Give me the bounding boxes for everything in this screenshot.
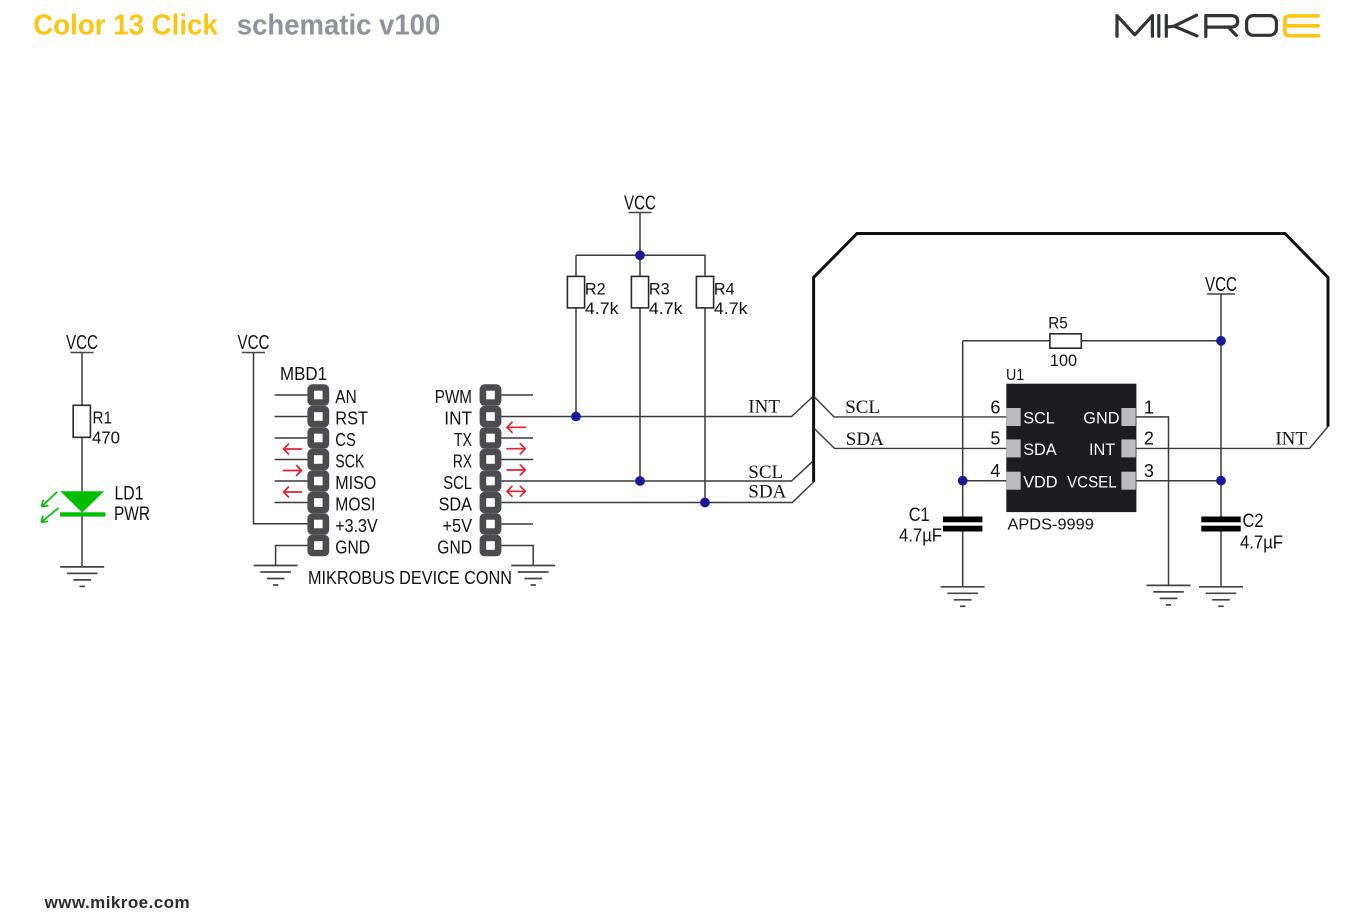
- svg-text:100: 100: [1050, 351, 1077, 370]
- wire C1 to ground: [962, 532, 964, 587]
- svg-text:VCSEL: VCSEL: [1067, 474, 1117, 492]
- wire R4 to SDA net: [704, 308, 706, 503]
- svg-text:SDA: SDA: [748, 482, 786, 503]
- capacitor C2: [1201, 510, 1283, 553]
- svg-text:1: 1: [1144, 397, 1154, 417]
- svg-text:+3.3V: +3.3V: [335, 516, 377, 536]
- arrow RX (right, red): [507, 465, 525, 475]
- power flag VCC (right): [1205, 274, 1237, 296]
- MIKROE logo: [1117, 15, 1276, 36]
- svg-text:4.7k: 4.7k: [649, 299, 683, 318]
- wire MBD1 GND to ground: [276, 546, 308, 566]
- svg-text:PWM: PWM: [435, 387, 472, 407]
- wire VCC to R1: [81, 353, 83, 406]
- svg-text:schematic v100: schematic v100: [237, 10, 440, 42]
- svg-text:U1: U1: [1006, 367, 1024, 384]
- IC U1 APDS-9999: [1006, 367, 1136, 534]
- resistor R2: [567, 276, 619, 318]
- junction R5/VCC: [1216, 336, 1226, 346]
- svg-text:R3: R3: [649, 280, 670, 299]
- svg-text:SCL: SCL: [845, 397, 880, 418]
- wire U1 GND pin 1 to ground: [1136, 417, 1168, 586]
- svg-text:MBD1: MBD1: [280, 364, 327, 384]
- connector MBD1 body: [307, 384, 329, 556]
- MBD1 pin stubs: [275, 395, 308, 503]
- wire DEVICE CONN GND to ground: [501, 546, 533, 566]
- wire VDD net vertical: [962, 341, 964, 517]
- LED LD1 (green): [41, 483, 150, 526]
- wire VDD to U1 pin 4: [963, 480, 1007, 482]
- junction VCSEL/VCC: [1216, 476, 1226, 486]
- svg-text:2: 2: [1144, 429, 1154, 449]
- svg-text:SDA: SDA: [846, 429, 884, 450]
- junction SDA/R4: [700, 498, 710, 508]
- wire INT net (connector to bus): [501, 396, 813, 417]
- junction VDD/C1: [958, 476, 968, 486]
- arrow SCK (right, red): [284, 466, 302, 476]
- arrow INT (left, red): [507, 422, 525, 432]
- svg-text:SCL: SCL: [1023, 409, 1055, 427]
- wire U1 INT pin 2 to bus: [1136, 427, 1328, 449]
- arrow MISO (left, red): [284, 487, 302, 497]
- svg-text:AN: AN: [335, 387, 356, 407]
- resistor R4: [696, 276, 748, 318]
- junction INT/R2: [571, 412, 581, 422]
- logo E (yellow): [1285, 16, 1318, 36]
- svg-text:MIKROBUS DEVICE CONN: MIKROBUS DEVICE CONN: [308, 568, 512, 588]
- svg-text:SDA: SDA: [439, 495, 472, 515]
- svg-text:GND: GND: [1083, 409, 1119, 427]
- svg-text:3: 3: [1144, 461, 1154, 481]
- svg-text:SCL: SCL: [443, 473, 472, 493]
- arrow SDA (bidir, red): [507, 486, 525, 496]
- svg-text:INT: INT: [1275, 429, 1307, 450]
- resistor R3: [631, 276, 683, 318]
- wire VCC to +3.3V pin: [254, 353, 308, 524]
- wire C2 to ground: [1220, 532, 1222, 587]
- svg-text:+5V: +5V: [442, 516, 472, 536]
- svg-text:R4: R4: [714, 280, 735, 299]
- arrow CS (left, red): [284, 444, 302, 454]
- svg-text:INT: INT: [748, 397, 780, 418]
- wire R2 to INT net: [575, 308, 577, 417]
- svg-text:4: 4: [990, 461, 1000, 481]
- svg-text:APDS-9999: APDS-9999: [1008, 517, 1094, 534]
- svg-text:INT: INT: [444, 409, 472, 429]
- MBD1 pin names: [335, 387, 377, 558]
- power flag VCC (pull-up bank): [624, 193, 656, 215]
- svg-text:6: 6: [990, 397, 1000, 417]
- wire pull-up rail: [576, 254, 706, 256]
- svg-text:RX: RX: [453, 452, 472, 472]
- svg-text:C1: C1: [909, 504, 930, 526]
- wire VDD to R5: [963, 340, 1050, 342]
- wire rail to R2: [575, 255, 577, 276]
- capacitor C1: [899, 504, 982, 545]
- ground (C1): [941, 587, 985, 607]
- svg-text:PWR: PWR: [114, 503, 150, 525]
- wire SCL (bus to U1 pin 6): [814, 396, 1007, 417]
- svg-text:LD1: LD1: [115, 483, 144, 505]
- wire R5 to VCC: [1081, 340, 1221, 342]
- svg-text:INT: INT: [1089, 441, 1115, 459]
- power flag VCC (MBD1 branch): [238, 332, 270, 354]
- bus outline (thick): [814, 234, 1328, 482]
- wire VCC down: [639, 213, 641, 256]
- ground (LED branch): [60, 567, 104, 587]
- wire SDA net (connector to bus): [501, 482, 813, 503]
- svg-text:4.7k: 4.7k: [585, 299, 619, 318]
- svg-text:C2: C2: [1243, 510, 1264, 532]
- svg-text:4.7µF: 4.7µF: [1240, 533, 1283, 553]
- ground (C2): [1199, 587, 1243, 607]
- resistor R5: [1048, 314, 1081, 371]
- ground (MBD1): [254, 566, 298, 586]
- svg-text:R1: R1: [93, 408, 113, 428]
- svg-text:VCC: VCC: [624, 193, 656, 215]
- ground (U1 GND): [1147, 585, 1191, 605]
- DEVICE CONN pin names: [435, 387, 472, 558]
- svg-text:4.7k: 4.7k: [714, 299, 748, 318]
- svg-text:Color 13 Click: Color 13 Click: [33, 10, 218, 42]
- svg-text:VCC: VCC: [1205, 274, 1237, 296]
- svg-text:MOSI: MOSI: [335, 495, 375, 515]
- svg-text:4.7µF: 4.7µF: [899, 526, 942, 546]
- wire SDA (bus to U1 pin 5): [815, 429, 1007, 449]
- svg-text:VCC: VCC: [238, 332, 270, 354]
- resistor R1: [73, 405, 120, 447]
- svg-text:GND: GND: [335, 538, 370, 558]
- wire LD1 to ground: [81, 517, 83, 567]
- svg-text:MISO: MISO: [335, 473, 376, 493]
- svg-text:TX: TX: [454, 430, 472, 450]
- svg-text:RST: RST: [335, 409, 368, 429]
- svg-text:SCK: SCK: [335, 452, 364, 472]
- svg-text:CS: CS: [335, 430, 356, 450]
- svg-text:5: 5: [990, 429, 1000, 449]
- wire rail to R3: [639, 255, 641, 276]
- power flag VCC (LED branch): [66, 332, 98, 354]
- title: [33, 10, 440, 42]
- ground (DEVICE CONN): [511, 566, 555, 586]
- svg-text:VCC: VCC: [66, 332, 98, 354]
- svg-text:www.mikroe.com: www.mikroe.com: [44, 893, 190, 912]
- svg-text:SCL: SCL: [748, 462, 783, 483]
- junction SCL/R3: [635, 476, 645, 486]
- wire rail to R4: [704, 255, 706, 276]
- arrow TX (right, red): [507, 444, 525, 454]
- svg-text:R2: R2: [585, 280, 606, 299]
- wire SCL net (connector to bus): [501, 461, 813, 481]
- connector DEVICE CONN body: [480, 384, 502, 556]
- svg-text:SDA: SDA: [1023, 441, 1057, 459]
- wire U1 VCSEL pin 3 to VCC: [1136, 480, 1221, 482]
- svg-text:GND: GND: [437, 538, 472, 558]
- wire R3 to SCL net: [639, 308, 641, 481]
- svg-text:R5: R5: [1048, 314, 1068, 333]
- svg-text:VDD: VDD: [1023, 474, 1057, 492]
- svg-text:470: 470: [92, 428, 120, 448]
- DEVICE CONN stubs: [501, 395, 533, 524]
- wire R1 to LD1: [81, 437, 83, 491]
- junction VCC pull-ups: [635, 250, 645, 260]
- wire VCC down to C2: [1220, 294, 1222, 517]
